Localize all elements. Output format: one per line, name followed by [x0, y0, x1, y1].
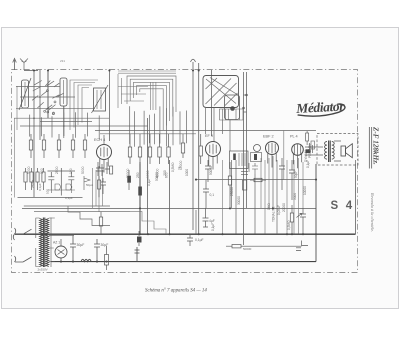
left block drop wires: [30, 112, 100, 139]
svg-text:0,1: 0,1: [210, 193, 215, 197]
svg-text:250: 250: [136, 172, 140, 178]
svg-text:20000: 20000: [282, 203, 286, 212]
capacitor C15: [187, 234, 193, 246]
svg-text:30000: 30000: [237, 196, 241, 205]
schematic dash-dot border: [12, 70, 358, 273]
meter flag: [84, 176, 93, 190]
rectifier tube V5 AZ1: [55, 239, 67, 262]
svg-text:Revendu à la clientèle.: Revendu à la clientèle.: [370, 192, 375, 232]
svg-text:5000: 5000: [293, 193, 297, 200]
ground bus wire: [51, 261, 316, 263]
svg-text:AZ 1: AZ 1: [53, 241, 60, 245]
tube V4 EL3 output: [292, 144, 304, 156]
svg-text:5000: 5000: [81, 166, 85, 174]
filter choke: [81, 259, 91, 261]
resistor bank B: [129, 134, 131, 164]
AVC bus wire: [22, 207, 316, 209]
resistor bank A: [30, 134, 32, 158]
svg-text:0,1µF: 0,1µF: [211, 223, 215, 231]
svg-text:1000: 1000: [185, 169, 189, 176]
Mediator logo: [295, 98, 346, 117]
smoothing lead dark: [135, 247, 140, 262]
svg-text:50000: 50000: [209, 166, 213, 175]
grid stopper resistor: [306, 131, 309, 145]
tube V1 ECH4: [97, 145, 112, 160]
tube V1 cathode cluster: [96, 162, 113, 176]
detector-discriminator cluster: [24, 168, 75, 200]
svg-text:30µF: 30µF: [101, 243, 109, 247]
wire y206: [24, 205, 110, 207]
oscillator feed wire: [63, 106, 65, 136]
tuning capacitor gang C-var: [203, 76, 243, 121]
tube V3 EBF2: [266, 142, 279, 155]
svg-text:0,1µF: 0,1µF: [147, 178, 151, 186]
svg-text:EF 9: EF 9: [205, 134, 213, 138]
speaker wiring: [305, 141, 356, 164]
left block interconnect wires: [16, 87, 95, 122]
svg-text:Schéma n° 7 appareils S4 — 14: Schéma n° 7 appareils S4 — 14: [145, 289, 207, 294]
mains transformer T1: [36, 218, 74, 272]
svg-text:Médiator: Médiator: [295, 98, 346, 116]
resistor R20: [226, 245, 302, 248]
svg-text:50µA: 50µA: [86, 183, 93, 187]
diode circle: [254, 145, 261, 152]
hum pot: [99, 212, 102, 234]
components under V3: [230, 151, 296, 234]
components under V2: [205, 160, 232, 208]
svg-text:30µF: 30µF: [77, 243, 85, 247]
loom drop wires: [130, 106, 187, 147]
wave-change switch S1 cluster: [32, 81, 64, 115]
speaker: [341, 144, 352, 158]
left wire y118: [14, 117, 109, 119]
screen resistor dark: [138, 187, 142, 196]
screen resistor R8: [199, 134, 202, 164]
output coupling dark cap: [306, 149, 311, 153]
antenna symbol: [20, 59, 28, 71]
component value labels: [209, 143, 312, 231]
svg-text:250: 250: [163, 170, 167, 176]
svg-text:1MΩ: 1MΩ: [267, 203, 271, 210]
svg-text:0,1µF: 0,1µF: [38, 183, 42, 191]
svg-text:0,1µF: 0,1µF: [195, 238, 204, 242]
earth terminal arrow: [13, 59, 17, 71]
padder jogs: [243, 94, 248, 112]
aerial coil L1: [22, 80, 29, 108]
left wire y126: [20, 125, 148, 127]
dial lamp wire with hook: [191, 59, 196, 230]
aerial return wire: [16, 86, 18, 130]
wire y179: [196, 179, 316, 181]
IF frequency note: [369, 126, 379, 169]
svg-text:25000: 25000: [230, 187, 234, 196]
svg-text:231: 231: [60, 59, 65, 63]
coupling capacitor C21: [300, 208, 306, 234]
svg-text:0,5MΩ: 0,5MΩ: [287, 220, 291, 230]
HT bus wire: [15, 233, 356, 235]
svg-text:0,5MΩ: 0,5MΩ: [171, 162, 175, 172]
tube V2 EF9: [206, 142, 221, 157]
loudspeaker dashed enclosure: [317, 134, 358, 166]
band-switch wiring loom: [118, 74, 176, 130]
RF coil L3: [60, 78, 67, 106]
grid row wire y134: [100, 133, 196, 135]
svg-text:S 4: S 4: [331, 200, 355, 212]
svg-text:75: 75: [178, 166, 182, 170]
left nested loop wires: [70, 80, 98, 130]
left block dots: [33, 96, 64, 127]
grid leak cluster: [98, 176, 107, 197]
svg-text:50000: 50000: [155, 172, 159, 181]
svg-text:4µF: 4µF: [209, 219, 215, 223]
bleeder resistor: [105, 246, 109, 270]
decoupling capacitor C17: [203, 180, 209, 209]
wire y71 pair: [118, 71, 176, 73]
svg-text:25000: 25000: [31, 179, 35, 188]
svg-text:2500: 2500: [55, 166, 59, 174]
svg-text:PL 4: PL 4: [290, 135, 298, 139]
filter capacitor C30b: [94, 239, 100, 262]
border dark segment: [24, 70, 38, 72]
gang drop wires: [206, 108, 231, 151]
resistor R12: [182, 134, 184, 158]
svg-text:100: 100: [46, 189, 50, 194]
IF ladder components: [241, 163, 258, 190]
svg-text:10000: 10000: [303, 186, 307, 195]
volume potentiometer: [290, 205, 301, 234]
grid row wire y130: [95, 130, 316, 132]
svg-text:50pF: 50pF: [294, 171, 298, 178]
micro value labels fan: [147, 162, 189, 186]
long vertical wires: [34, 63, 356, 262]
svg-text:EBF 2: EBF 2: [263, 135, 274, 139]
electrolytic capacitor blob: [127, 170, 131, 190]
mains switch: [13, 228, 31, 262]
svg-text:50000: 50000: [243, 247, 252, 251]
AF capacitor C18: [203, 208, 209, 227]
svg-text:0,05µF: 0,05µF: [277, 205, 281, 215]
svg-text:ECH 4: ECH 4: [94, 138, 105, 142]
filter capacitor C30a: [70, 235, 76, 261]
heater step wire 2: [130, 212, 166, 234]
wire y197: [18, 197, 83, 199]
chassis capacitor dark: [137, 231, 142, 246]
output transformer T2: [325, 141, 335, 163]
svg-text:5000: 5000: [27, 166, 31, 174]
oscillator coil L2: [94, 88, 106, 111]
svg-text:2x350V: 2x350V: [38, 268, 48, 272]
svg-text:Z-F 128kHz.: Z-F 128kHz.: [372, 126, 380, 165]
svg-text:1000: 1000: [146, 170, 150, 178]
tone capacitor C22: [296, 241, 308, 251]
wire y211: [34, 211, 130, 213]
left margin vertical: [14, 118, 16, 197]
heater step wire: [68, 206, 110, 226]
svg-text:0,3µF: 0,3µF: [65, 196, 73, 200]
